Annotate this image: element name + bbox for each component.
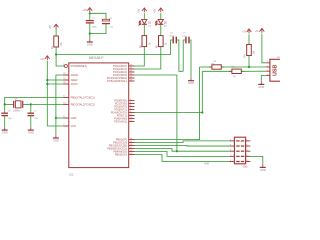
wire SV1 pin8 to ground [250, 156, 262, 164]
wire decoupling to ground [89, 34, 91, 40]
wire D- column up [201, 71, 203, 112]
wire left cap top [4, 104, 6, 113]
power +5V supply arrow decoupling [83, 8, 93, 13]
resistor R3 68 horizontal [229, 67, 244, 78]
node junction crystal right [30, 103, 32, 105]
IC U1 left pins PC6 AGND AREF AVCC PB6 PB7 GND VCC [63, 64, 95, 128]
ground GND under decoupling [87, 39, 93, 46]
svg-text:12MHz: 12MHz [13, 111, 21, 113]
power +5V supply arrow R4 [242, 29, 251, 34]
wire R5 to PC0 [135, 47, 145, 66]
node decoupling top junction [89, 12, 91, 14]
resistor R5 vertical [141, 36, 152, 49]
svg-text:+5V: +5V [255, 31, 260, 33]
wire RESET down to pin PC6 [56, 55, 64, 67]
resistor R2 value [214, 61, 217, 63]
node junction GND [55, 117, 57, 119]
capacitor C6 22p [1, 110, 12, 119]
svg-text:+5V: +5V [153, 8, 156, 13]
wire left cap to ground [4, 116, 6, 128]
wire RESET rail long horizontal [56, 54, 171, 56]
wire crystal right lead [23, 103, 31, 105]
wire +5V to LED2 [160, 13, 162, 19]
connector SV1 pins and stubs [230, 139, 251, 162]
wire R6 to PC1 [135, 47, 161, 69]
wire R3 to USB pin3 [241, 70, 266, 72]
wire D+ PB0 to column [135, 67, 200, 140]
resistor R6 vertical [157, 36, 168, 49]
capacitor C5 100n horizontal [182, 33, 189, 44]
svg-text:10n: 10n [182, 35, 185, 37]
svg-text:IC1: IC1 [69, 173, 74, 177]
node junction crystal left [4, 103, 6, 105]
wire +5V to USB pin1 [262, 34, 266, 63]
IC U1 right pins PC0-PC5 PD0-PD7 PB0-PB5 [107, 64, 135, 157]
wire LED1 to R5 [143, 25, 145, 36]
wire +5V arrow to R1 [55, 28, 57, 36]
power +5V supply arrow LED1 [138, 8, 147, 13]
svg-text:SV1: SV1 [243, 166, 248, 169]
wire crystal left lead [5, 103, 14, 105]
svg-text:+5V: +5V [49, 25, 52, 30]
resistor R4 1k5 vertical [245, 45, 256, 58]
wire to VCC pin [47, 125, 63, 127]
wire LED2 to R6 [160, 25, 162, 36]
svg-text:X1: X1 [277, 57, 280, 59]
wire right cap top [30, 104, 32, 113]
svg-text:+5V: +5V [40, 58, 45, 61]
wire to AREF pin [47, 79, 63, 81]
LED D2 [155, 19, 167, 27]
ground GND under C6 [2, 127, 8, 134]
svg-text:100n: 100n [170, 35, 174, 37]
node junction V1 PB3 row [176, 150, 178, 152]
node junction R4 D+ [248, 66, 250, 68]
capacitor C7 22p [28, 110, 39, 119]
wire C5 left lead [183, 40, 186, 71]
wire +5V column down to VCC [46, 61, 48, 126]
wire D+ row to R2 [200, 66, 212, 68]
node RESET junction [55, 53, 57, 55]
wire PB3 to SV1 pin5 [135, 149, 230, 152]
node decoupling bottom junction [89, 32, 91, 34]
wire C2 top lead [89, 13, 91, 20]
wire XTAL1 from IC to left [5, 97, 63, 104]
wire to AVCC pin [47, 83, 63, 85]
power +5V supply arrow USB [255, 29, 265, 34]
wire right cap to ground [30, 116, 32, 128]
wire PB2 to SV1 pin3 [135, 145, 230, 148]
wire PB1 to SV1 pin1 [135, 141, 230, 143]
wire XTAL2 from IC [31, 103, 63, 105]
capacitor C4 100n horizontal [170, 33, 177, 44]
LED D1 [139, 19, 152, 27]
capacitor C2 100n [86, 18, 98, 28]
svg-text:GND: GND [204, 164, 209, 166]
power +5V supply arrow LED2 [153, 8, 163, 13]
wire +5V to LED1 [143, 13, 145, 19]
svg-text:USB: USB [273, 65, 279, 76]
wire PB5 to SV1 pin9 [135, 155, 230, 162]
svg-text:MEGA8-P: MEGA8-P [89, 56, 105, 60]
power +5V supply arrow left [40, 56, 49, 61]
wire rail up to C4 left [171, 40, 174, 55]
wire +5V to decoupling node [89, 12, 91, 15]
wire D- row to R3 [202, 70, 232, 72]
wire W3 PC4 to V1 [135, 74, 177, 76]
wire R4 to D+ row [248, 56, 250, 68]
node junction AVCC [46, 83, 48, 85]
svg-text:+5V: +5V [83, 9, 88, 12]
IC U1 ATMEGA8 MEGA8-P box [69, 56, 129, 177]
node junction D- column [201, 111, 203, 113]
svg-text:+5V: +5V [242, 32, 247, 34]
wire R2 to USB pin2 [221, 66, 266, 68]
USB connector X1 box [270, 57, 282, 81]
wire R1 bottom to RESET node [55, 47, 57, 55]
wire C4 right lead down [176, 40, 183, 71]
svg-text:100n: 100n [92, 26, 98, 28]
capacitor C3 10u polarized [102, 18, 114, 28]
wire AGND to GND column [56, 75, 63, 135]
wire C3 bottom lead [90, 24, 106, 34]
ground GND under USB [258, 82, 264, 89]
resistor R2 68 horizontal [209, 63, 224, 69]
connector SV1 ISP header box [234, 137, 248, 168]
resistor R1 10k vertical [52, 36, 63, 49]
wire loop to C3 top [90, 13, 106, 19]
svg-text:+5V: +5V [138, 8, 141, 13]
wire W4 PD4 to D- column [135, 112, 203, 114]
ground GND under SV1 [260, 165, 266, 172]
wire +5V to R4 [248, 34, 250, 44]
wire GND pin to column [56, 117, 63, 119]
ground GND under C5 [188, 78, 194, 85]
USB connector pins 1-4 [266, 61, 270, 76]
wire C5 right lead to ground [189, 40, 191, 78]
crystal Q1 12MHz [13, 98, 23, 112]
wire C2 bottom lead [89, 23, 91, 34]
ground GND symbol under IC [53, 135, 59, 142]
node junction AREF [46, 79, 48, 81]
wire V1 vertical PC4 down to PB3 row [176, 75, 178, 151]
net label GND near SV1 [204, 164, 209, 166]
power +5V supply arrow top-left [49, 24, 59, 29]
wire PB4 to SV1 pin7 [135, 152, 230, 157]
ground GND under C7 [28, 127, 34, 134]
wire USB pin4 to ground [261, 75, 266, 81]
